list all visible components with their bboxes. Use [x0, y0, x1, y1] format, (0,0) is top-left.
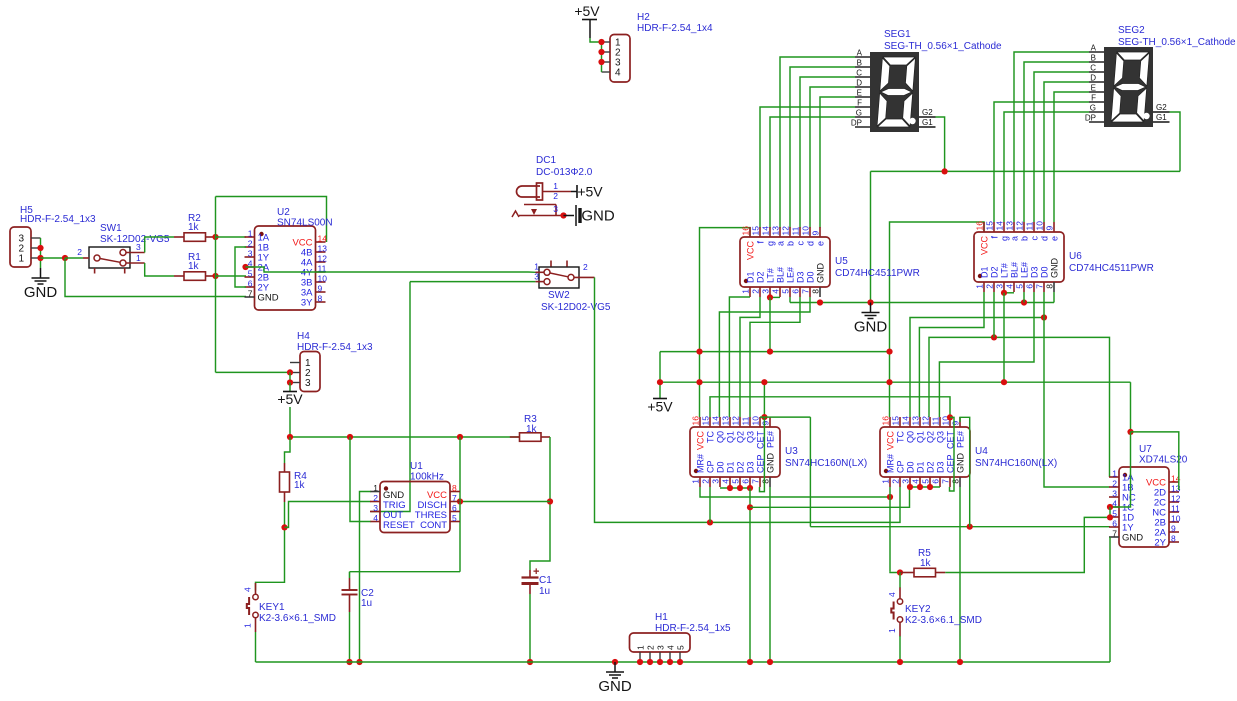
H1 pin 4 [669, 652, 671, 662]
svg-text:8: 8 [951, 479, 961, 484]
svg-text:C: C [1090, 64, 1096, 73]
svg-text:3: 3 [553, 204, 558, 214]
wire U3 CEP loop [760, 417, 765, 492]
U3 pin 2 CP [709, 477, 711, 487]
svg-text:14: 14 [995, 221, 1005, 231]
U7 pin 6 1Y [1109, 526, 1119, 528]
svg-text:D2: D2 [990, 266, 1000, 278]
wire SEG1 G to U5.g [770, 117, 855, 228]
SEG1 pin G1 [919, 126, 936, 128]
svg-text:GND: GND [816, 263, 826, 284]
svg-text:6: 6 [452, 503, 457, 513]
U5 pin 9 e [819, 227, 821, 237]
svg-text:5: 5 [731, 479, 741, 484]
svg-text:E: E [857, 89, 862, 98]
SEG1 pin E [855, 96, 870, 98]
U4 pin 2 CP [899, 477, 901, 487]
wire U4 GND drop [959, 487, 961, 662]
junction U6.D0 [1041, 314, 1047, 320]
wire SEG2 A to U6.a [1014, 52, 1089, 222]
junction U3 D2 [737, 485, 743, 491]
svg-text:BL#: BL# [776, 267, 786, 283]
svg-text:D1: D1 [916, 461, 926, 473]
U2 pin 10 3B [316, 281, 326, 283]
U4 pin 11 Q3 [939, 417, 941, 427]
svg-text:KEY2: KEY2 [905, 604, 931, 615]
svg-text:1: 1 [636, 645, 646, 650]
junction U3 GND rail [767, 659, 773, 665]
U3 pin 11 Q3 [749, 417, 751, 427]
U2 pin 4 2A [245, 266, 255, 268]
svg-text:7: 7 [751, 479, 761, 484]
U2 pin 5 2B [245, 276, 255, 278]
svg-text:7: 7 [1112, 529, 1117, 539]
SEG1 pin G [855, 116, 870, 118]
U5 pin 12 b [789, 227, 791, 237]
IC U7 XD74LS20 [1119, 467, 1169, 547]
wire +5V trunk to H4 pin2 [216, 371, 291, 373]
svg-text:G: G [856, 109, 862, 118]
U6 pin 6 D3 [1033, 282, 1035, 292]
svg-text:G1: G1 [1156, 113, 1167, 122]
svg-text:SEG-TH_0.56×1_Cathode: SEG-TH_0.56×1_Cathode [884, 41, 1002, 52]
wire +5V rail A y=351.6 [660, 351, 890, 353]
wire SEG2 F to U6.f [994, 102, 1089, 222]
svg-text:8: 8 [318, 294, 323, 304]
wire U1 RESET to +5V [350, 437, 371, 522]
wire to U7.2D [1131, 432, 1179, 490]
svg-text:GND: GND [581, 208, 615, 225]
wire U2 1B-2Y loop [235, 247, 246, 287]
junction +5V rail / U1 VCC branch [457, 434, 463, 440]
svg-text:4: 4 [887, 592, 897, 597]
svg-text:7: 7 [941, 479, 951, 484]
svg-text:11: 11 [1025, 221, 1035, 230]
svg-text:D3: D3 [746, 461, 756, 473]
svg-text:A: A [1091, 44, 1097, 53]
svg-text:SW2: SW2 [548, 290, 570, 301]
U3 pin 8 GND [769, 477, 771, 487]
svg-text:2: 2 [1112, 479, 1117, 489]
U6 pin 2 D2 [993, 282, 995, 292]
svg-text:3Y: 3Y [301, 298, 313, 309]
junction C1 rail [527, 659, 533, 665]
U4 pin 5 D2 [929, 477, 931, 487]
U2 pin 3 1Y [245, 256, 255, 258]
U6 pin 11 c [1033, 222, 1035, 232]
svg-text:2: 2 [77, 247, 82, 257]
SEG1 pin D [855, 86, 870, 88]
svg-text:3: 3 [761, 289, 771, 294]
svg-text:G2: G2 [922, 108, 933, 117]
U3 pin 5 D2 [739, 477, 741, 487]
wire U6.D1 to U4.Q1 [919, 292, 984, 417]
U2 pin 12 4A [316, 261, 326, 263]
junction VCC riser wireA [696, 349, 702, 355]
svg-text:1k: 1k [294, 480, 306, 491]
svg-text:SK-12D02-VG5: SK-12D02-VG5 [541, 302, 611, 313]
wire SEG1 G2 to cathode net [936, 117, 945, 171]
U4 pin 8 GND [959, 477, 961, 487]
svg-text:U2: U2 [277, 207, 290, 218]
ground GND at H1 [612, 659, 618, 665]
wire +5V stem x=660 [659, 352, 661, 399]
wire SEG2 C to U6.c [1034, 72, 1089, 222]
wire node down to U2 GND [65, 258, 246, 297]
svg-text:D3: D3 [796, 271, 806, 283]
U5 pin 3 LT# [769, 287, 771, 297]
SEG2 pin C [1089, 71, 1104, 73]
wire U5.D2 to U3.Q2 [740, 297, 760, 417]
svg-text:g: g [766, 241, 776, 246]
H4 pin 1 [290, 362, 300, 364]
svg-text:SN74HC160N(LX): SN74HC160N(LX) [785, 458, 867, 469]
svg-text:Q2: Q2 [736, 431, 746, 443]
wire GND rail bottom [256, 661, 1111, 663]
svg-text:3: 3 [711, 479, 721, 484]
IC U4 SN74HC160N(LX) [880, 427, 970, 477]
svg-text:D1: D1 [726, 461, 736, 473]
U4 pin 15 TC [899, 417, 901, 427]
wire U5.D0 to U3.Q0 [719, 297, 810, 417]
wire H5 pins to GND [40, 238, 42, 268]
svg-text:13: 13 [721, 416, 731, 426]
U3 pin 6 D3 [749, 477, 751, 487]
svg-text:U5: U5 [835, 256, 848, 267]
header H2 HDR-F-2.54_1x4 [610, 35, 630, 83]
U7 pin 10 2B [1169, 521, 1179, 523]
wire SEG1 A to U5.a [780, 57, 855, 228]
U5 pin 4 BL# [779, 287, 781, 297]
wire U5.LT# to +5V A [769, 297, 771, 351]
svg-text:U6: U6 [1069, 251, 1082, 262]
header H1 HDR-F-2.54_1x5 [630, 633, 691, 652]
wire U2 2A to 4Y net (over body) [246, 267, 529, 272]
svg-text:D1: D1 [746, 271, 756, 283]
svg-text:CD74HC4511PWR: CD74HC4511PWR [1069, 263, 1154, 274]
power +5V at DC1 [571, 191, 577, 193]
wire H4 pin2-pin3 [289, 372, 291, 382]
SEG1 pin C [855, 76, 870, 78]
svg-text:D2: D2 [756, 271, 766, 283]
U6 pin 16 VCC [983, 222, 985, 232]
svg-text:SW1: SW1 [100, 223, 122, 234]
svg-text:1u: 1u [539, 586, 550, 597]
svg-text:1: 1 [1112, 469, 1117, 479]
U3 pin 1 MR# [699, 477, 701, 487]
svg-text:VCC: VCC [746, 241, 756, 261]
svg-text:1k: 1k [188, 222, 200, 233]
H2 pin 3 [602, 61, 611, 63]
svg-text:14: 14 [318, 234, 328, 244]
svg-text:SN74LS00N: SN74LS00N [277, 218, 333, 229]
svg-text:13: 13 [911, 416, 921, 426]
svg-text:2Y: 2Y [1154, 538, 1166, 549]
svg-text:2: 2 [751, 289, 761, 294]
junction CET net wireB [761, 379, 767, 385]
svg-text:3: 3 [248, 249, 253, 259]
junction U5 LT# [767, 294, 773, 300]
svg-text:1u: 1u [361, 598, 372, 609]
U4 pin 10 CET [949, 417, 951, 427]
junction +5V rail / R4 [287, 434, 293, 440]
svg-text:7: 7 [1035, 284, 1045, 289]
svg-text:HDR-F-2.54_1x4: HDR-F-2.54_1x4 [637, 23, 713, 34]
wire +5V B to U7 1C/2D [1130, 382, 1132, 432]
7-segment display SEG1 [870, 52, 919, 132]
IC U5 CD74HC4511PWR [740, 237, 830, 287]
svg-text:2: 2 [646, 645, 656, 650]
wire cathode to GND riser [870, 171, 872, 302]
DC1 pin 3 [555, 205, 557, 216]
svg-text:D0: D0 [806, 271, 816, 283]
svg-text:GND: GND [1050, 258, 1060, 279]
svg-text:4: 4 [615, 68, 621, 79]
svg-text:Q1: Q1 [726, 431, 736, 443]
wire C2 top link [350, 571, 461, 573]
junction U4 D2 [927, 484, 933, 490]
wire U1 VCC branch vertical [459, 437, 461, 572]
svg-text:D2: D2 [926, 461, 936, 473]
svg-text:11: 11 [791, 226, 801, 235]
svg-text:6: 6 [791, 289, 801, 294]
svg-text:d: d [1040, 236, 1050, 241]
svg-text:2: 2 [248, 239, 253, 249]
svg-text:5: 5 [1015, 284, 1025, 289]
junction H5 pin2 [37, 245, 43, 251]
svg-text:c: c [1030, 236, 1040, 241]
svg-text:9: 9 [1171, 524, 1176, 534]
wire U3.TC to U4.CET [710, 397, 950, 418]
svg-text:4: 4 [911, 479, 921, 484]
svg-text:4: 4 [771, 289, 781, 294]
svg-text:GND: GND [766, 453, 776, 474]
junction node SW1 input [62, 255, 68, 261]
svg-text:1: 1 [248, 229, 253, 239]
svg-text:HDR-F-2.54_1x3: HDR-F-2.54_1x3 [297, 342, 373, 353]
wire SEG2 E to U6.e [1054, 92, 1089, 222]
svg-text:DC1: DC1 [536, 155, 556, 166]
junction +5V stem wireB [657, 379, 663, 385]
U1 pin 2 TRIG [370, 501, 380, 503]
svg-text:1: 1 [373, 483, 378, 493]
svg-text:K2-3.6×6.1_SMD: K2-3.6×6.1_SMD [259, 613, 336, 624]
U3 pin 14 Q0 [719, 417, 721, 427]
wire SEG1 B to U5.b [790, 67, 855, 228]
svg-text:+: + [533, 566, 539, 578]
svg-text:G: G [1090, 104, 1096, 113]
wire C1 bottom to rail [529, 594, 531, 662]
wire U6.LE# drop [1023, 292, 1025, 303]
IC U1 100kHz [380, 482, 450, 533]
svg-text:U4: U4 [975, 446, 988, 457]
wire U3 D-tie to GND rail [749, 488, 751, 662]
wire U4 PE# hook [960, 417, 970, 526]
junction R2 right / +5V node [212, 234, 218, 240]
junction DISCH stub [457, 498, 463, 504]
svg-text:GND: GND [1122, 533, 1143, 544]
svg-text:9: 9 [811, 231, 821, 236]
wire U3 D-tie [720, 487, 750, 489]
U2 pin 14 VCC [316, 241, 326, 243]
U2 pin 11 4Y [316, 271, 326, 273]
svg-text:d: d [806, 241, 816, 246]
U3 pin 16 VCC [699, 417, 701, 427]
svg-text:B: B [857, 59, 862, 68]
H1 pin 1 [639, 652, 641, 662]
svg-text:5: 5 [921, 479, 931, 484]
U4 pin 16 VCC [889, 417, 891, 427]
svg-text:15: 15 [751, 226, 761, 236]
U5 pin 7 D0 [809, 287, 811, 297]
svg-text:U1: U1 [410, 461, 423, 472]
U4 pin 4 D1 [919, 477, 921, 487]
svg-text:C1: C1 [539, 575, 552, 586]
wire TRIG branch [285, 502, 371, 528]
svg-text:1: 1 [887, 628, 897, 633]
svg-text:3: 3 [305, 378, 311, 389]
svg-text:11: 11 [931, 416, 941, 425]
U3 pin 4 D1 [729, 477, 731, 487]
svg-text:HDR-F-2.54_1x3: HDR-F-2.54_1x3 [20, 214, 96, 225]
H4 pin 2 [290, 372, 300, 374]
U5 pin 10 d [809, 227, 811, 237]
wire SW2.1 from U2.4Y [529, 271, 536, 273]
U7 pin 9 2A [1169, 531, 1179, 533]
wire GND bus y=302.5 [790, 302, 1054, 304]
svg-text:DP: DP [851, 119, 862, 128]
U3 pin 12 Q2 [739, 417, 741, 427]
wire U1 GND to rail [360, 492, 371, 663]
svg-text:Q3: Q3 [936, 431, 946, 443]
svg-text:3: 3 [901, 479, 911, 484]
svg-text:1k: 1k [920, 558, 932, 569]
svg-text:4: 4 [373, 513, 378, 523]
svg-text:LE#: LE# [786, 267, 796, 283]
wire U3 CET stub link [760, 416, 810, 418]
U5 pin 8 GND [819, 287, 821, 297]
svg-text:14: 14 [711, 416, 721, 426]
svg-text:7: 7 [801, 289, 811, 294]
svg-text:e: e [1050, 236, 1060, 241]
U6 pin 1 D1 [983, 282, 985, 292]
svg-text:SK-12D02-VG5: SK-12D02-VG5 [100, 234, 170, 245]
wire R4 bottom to KEY1 [256, 502, 285, 591]
svg-text:1: 1 [881, 479, 891, 484]
svg-text:5: 5 [452, 513, 457, 523]
svg-text:6: 6 [1112, 519, 1117, 529]
SEG2 pin G2 [1153, 111, 1170, 113]
U6 pin 7 D0 [1043, 282, 1045, 292]
U6 pin 12 b [1023, 222, 1025, 232]
svg-text:9: 9 [1045, 226, 1055, 231]
svg-text:12: 12 [1015, 221, 1025, 231]
junction U7 1C [1107, 504, 1113, 510]
svg-text:GND: GND [956, 453, 966, 474]
wire SEG1 C to U5.c [800, 77, 855, 228]
wire U7 GND drop [1109, 537, 1111, 662]
svg-text:5: 5 [781, 289, 791, 294]
svg-text:16: 16 [881, 416, 891, 426]
svg-text:TC: TC [896, 431, 906, 443]
wire U4 CEP loop [950, 417, 955, 491]
svg-text:VCC: VCC [886, 431, 896, 451]
wire SEG1 D to U5.d [810, 87, 855, 228]
H2 pin 2 [602, 51, 611, 53]
U2 pin 9 3A [316, 291, 326, 293]
wire +5V vertical trunk x=215.5 [215, 197, 217, 373]
U7 pin 1 1A [1109, 476, 1119, 478]
wire U5.D1 to U3.Q1 [729, 297, 750, 417]
wire PE# net down x=810 [809, 417, 811, 527]
wire H5.1 to SW1.2 [41, 257, 66, 259]
junction H2 pin1 [598, 39, 604, 45]
SEG1 pin DP [855, 126, 870, 128]
junction H2 pin2 [598, 49, 604, 55]
ground GND at DC1 [564, 215, 575, 217]
svg-text:U7: U7 [1139, 444, 1152, 455]
wire SEG1 E to U5.e [820, 97, 855, 228]
svg-text:LT#: LT# [766, 268, 776, 283]
svg-text:6: 6 [1025, 284, 1035, 289]
wire SW1.2 lead [65, 257, 83, 259]
U1 pin 7 DISCH [450, 501, 460, 503]
svg-text:G2: G2 [1156, 103, 1167, 112]
IC U2 SN74LS00N [255, 226, 316, 310]
svg-text:VCC: VCC [980, 236, 990, 256]
svg-text:9: 9 [318, 284, 323, 294]
svg-text:H1: H1 [655, 612, 668, 623]
H5 pin 3 [31, 237, 41, 239]
U3 pin 15 TC [709, 417, 711, 427]
wire U6.D0 drop and U7.1B link [1044, 292, 1110, 487]
wire U5.LE# to GND bus [789, 297, 791, 303]
wire U3 MR# link [700, 487, 890, 497]
svg-text:LE#: LE# [1020, 262, 1030, 278]
H1 pin 2 [649, 652, 651, 662]
U6 pin 8 GND [1053, 282, 1055, 292]
svg-text:1: 1 [534, 262, 539, 272]
H4 pin 3 [290, 382, 300, 384]
svg-text:1: 1 [243, 623, 253, 628]
svg-text:CP: CP [706, 460, 716, 473]
svg-text:TC: TC [706, 431, 716, 443]
U1 pin 8 VCC [450, 491, 460, 493]
junction clock at U3 CP [707, 519, 713, 525]
wire U3 CET/PE# from +5V B [763, 382, 765, 417]
svg-text:A: A [857, 49, 863, 58]
svg-text:g: g [1000, 236, 1010, 241]
svg-text:B: B [1091, 54, 1096, 63]
U6 pin 4 BL# [1013, 282, 1015, 292]
svg-text:D0: D0 [1040, 266, 1050, 278]
junction H4 pin3 [287, 379, 293, 385]
svg-text:15: 15 [891, 416, 901, 426]
wire U6.LT# to +5V B [1003, 293, 1005, 382]
U3 pin 7 CEP [759, 477, 761, 487]
svg-text:3: 3 [373, 503, 378, 513]
svg-text:MR#: MR# [886, 454, 896, 473]
svg-text:U3: U3 [785, 446, 798, 457]
U3 pin 3 D0 [719, 477, 721, 487]
H1 pin 5 [679, 652, 681, 662]
wire KEY2 to rail [899, 636, 901, 662]
U6 pin 3 LT# [1003, 282, 1005, 292]
U2 pin 13 4B [316, 251, 326, 253]
IC U6 CD74HC4511PWR [974, 232, 1064, 282]
U1 pin 6 THRES [450, 511, 460, 513]
svg-text:+5V: +5V [577, 184, 603, 200]
